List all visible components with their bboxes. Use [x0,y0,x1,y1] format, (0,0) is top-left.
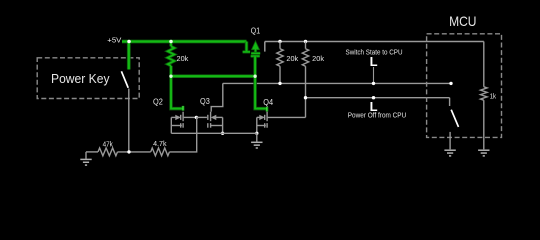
node Q3 source on ground rail [221,132,224,135]
transistor Q2 label [153,97,163,106]
transistor Q1 source leg [243,42,251,52]
svg-text:20k: 20k [177,54,189,63]
label 20k-b [312,54,324,63]
label 1k [490,91,497,100]
wire green drop to Q2 gate [171,76,183,110]
label 4.7k [153,139,167,148]
node key divider junction [127,150,130,153]
transistor Q1 gate bar [251,55,260,58]
wire switch to bottom node [128,89,130,152]
wire green drop to Q4 gate [255,76,267,111]
node L2 junction [372,96,375,99]
Power Key label [51,71,110,86]
transistor Q3 body [196,112,222,134]
node switch-state end [449,82,452,85]
resistor 20k-a [277,42,283,84]
resistor 20k (green pull-up) [168,42,175,77]
svg-text:Q1: Q1 [251,27,261,36]
svg-text:L: L [370,54,378,69]
node 20k top junction [169,40,173,44]
label 20k green [177,54,189,63]
svg-text:20k: 20k [312,54,324,63]
resistor 20k-b [302,42,308,98]
wire Q4 drain up [305,98,307,118]
transistor Q3 label [200,97,210,106]
node 20k-b bottom [304,96,307,99]
switch MCU blade [451,110,458,127]
svg-text:+5V: +5V [107,35,122,44]
label Power Off from CPU [348,113,407,120]
transistor Q4 label [263,98,273,107]
node 20k-a top [278,40,281,43]
node green junction left [169,75,172,78]
wire Q3 gate lead [211,83,223,111]
node Q2-Q3 junction [195,116,198,119]
label L marker 2 [370,99,378,114]
svg-text:1k: 1k [490,91,497,100]
label Switch State to CPU [346,49,403,56]
wire switch-state line [223,82,451,84]
ground mid [251,133,262,148]
wire switch drop [127,42,131,70]
+5V label [107,35,122,44]
ground 1k [478,150,489,156]
Power Key dashed box [37,58,139,99]
transistor Q1 channel bar [251,52,260,55]
wire power-off corner [449,98,451,106]
transistor Q1 label [251,27,261,36]
wire ground rail [171,132,256,134]
resistor 47k [98,148,117,156]
svg-text:Power Off from CPU: Power Off from CPU [348,113,407,120]
node Q4 source on ground rail [255,132,258,135]
wire 4.7k to Q2 drain [169,117,196,151]
label 20k-a [286,54,298,63]
svg-text:Q4: Q4 [263,98,273,107]
ground MCU switch [444,150,455,156]
label 47k [103,139,114,148]
wire power-off line [306,97,450,99]
wire 47k to node [118,151,151,153]
transistor Q1 drain bar [264,42,266,52]
transistor Q4 body [257,112,306,134]
wire drain rail to MCU [265,41,484,43]
wire L1 leader [373,67,375,83]
svg-text:4.7k: 4.7k [153,139,167,148]
ground left [80,152,98,165]
transistor Q1 body arrow [253,44,258,54]
svg-text:Power Key: Power Key [51,71,110,86]
node green junction right [253,75,256,78]
label L marker 1 [370,54,378,69]
node 20k-b top [304,40,307,43]
svg-text:47k: 47k [103,139,114,148]
node L1 junction [372,82,375,85]
wire MCU switch bottom [449,132,451,149]
MCU label [449,14,476,29]
resistor 4.7k [151,148,170,156]
wire rail corner down [483,42,485,87]
transistor Q2 body [171,112,196,134]
wire green gate node horizontal [171,74,255,78]
node +5V junction [127,40,131,44]
resistor 1k [480,87,487,150]
wire +5V rail [122,40,247,44]
node 20k-a bottom [278,82,281,85]
MCU dashed box [427,34,502,138]
svg-text:20k: 20k [286,54,298,63]
switch Power Key blade [121,71,128,88]
svg-text:L: L [370,99,378,114]
wire Q1 gate stem [253,57,257,77]
svg-text:Q2: Q2 [153,97,163,106]
svg-text:Q3: Q3 [200,97,210,106]
svg-text:MCU: MCU [449,14,476,29]
